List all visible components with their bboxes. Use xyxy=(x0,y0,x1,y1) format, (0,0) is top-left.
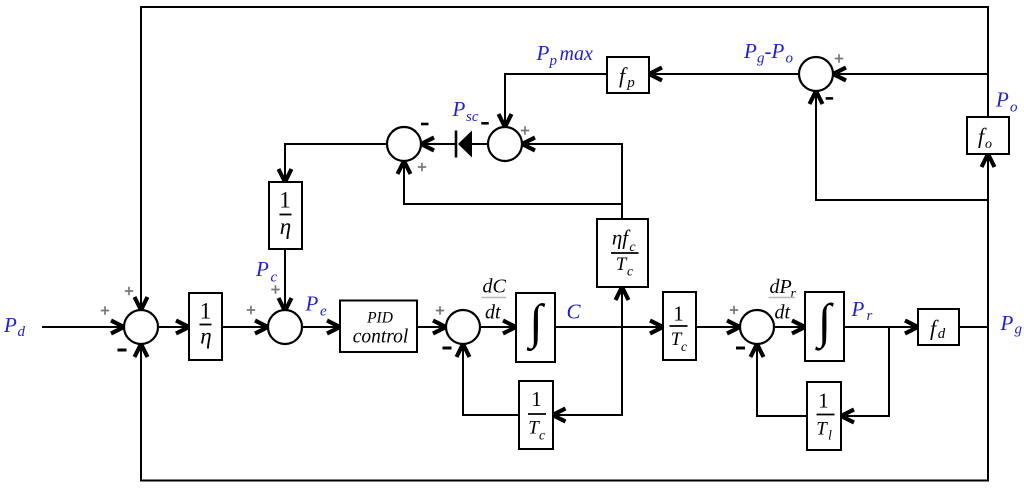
minus sign S4 right xyxy=(421,123,429,126)
label P_sc xyxy=(452,97,479,125)
wire 1/eta to S2 xyxy=(222,326,267,328)
svg-text:η: η xyxy=(280,214,291,239)
wire P_d input xyxy=(42,326,123,328)
block 1/Tc (mid) xyxy=(663,292,696,360)
svg-text:c: c xyxy=(681,339,687,354)
wire S6 minus feedback: branch at (988,200) left and up into S6 bottom xyxy=(816,92,988,200)
arrowheads (chevrons) xyxy=(111,68,995,423)
minus sign S1 bottom xyxy=(118,349,127,352)
svg-text:r: r xyxy=(867,308,873,324)
wire integrator2 to f_d with junction at x=889 xyxy=(844,326,917,328)
minus sign S7 bottom xyxy=(736,347,745,350)
summing junction S1 xyxy=(124,310,158,344)
svg-text:c: c xyxy=(271,270,278,286)
plus sign S7 left xyxy=(730,306,738,314)
svg-text:-P: -P xyxy=(765,39,785,63)
svg-text:d: d xyxy=(18,324,26,340)
label P_d xyxy=(3,313,26,340)
minus sign S5 top xyxy=(481,122,489,125)
diode P_sc (triangle + cathode bar) xyxy=(456,131,472,158)
plus sign S1 left xyxy=(101,306,109,314)
label P_p max xyxy=(536,41,593,69)
plus sign S2 left xyxy=(247,306,255,314)
label P_r xyxy=(851,297,873,324)
svg-text:control: control xyxy=(353,327,409,348)
arrow into integrator 1 xyxy=(503,321,516,334)
svg-text:T: T xyxy=(816,419,828,440)
svg-text:e: e xyxy=(320,304,327,320)
svg-text:PID: PID xyxy=(366,310,393,327)
svg-text:l: l xyxy=(828,428,832,443)
wire 1/Tc lower output left and up into S3 bottom xyxy=(463,345,519,415)
wire S6 output to f_p xyxy=(650,73,799,75)
svg-text:c: c xyxy=(539,428,545,443)
wire junction to S6 plus input xyxy=(834,73,988,75)
arrow into S7 left xyxy=(727,321,740,334)
arrow into S4 bottom xyxy=(398,161,411,174)
label dPr/dt xyxy=(769,276,797,324)
arrow into S5 top xyxy=(499,114,512,127)
svg-text:p: p xyxy=(626,75,635,91)
wire integrator1 to 1/Tc with junction at x=622 xyxy=(555,326,659,328)
block 1/Tc (lower feedback) xyxy=(519,381,553,449)
summing junction S6 xyxy=(799,57,833,91)
wire P_g up into f_o bottom xyxy=(987,156,989,327)
block f_d xyxy=(918,309,959,345)
block etafc/Tc xyxy=(597,219,648,287)
arrow into PID block xyxy=(327,321,340,334)
arrow into S2 left xyxy=(255,321,268,334)
arrow into S5 right xyxy=(522,138,535,151)
arrow into S6 bottom xyxy=(810,91,823,104)
arrow into 1/Tl right xyxy=(841,410,854,423)
svg-text:1: 1 xyxy=(818,389,829,413)
arrow into f_o bottom xyxy=(982,154,995,167)
arrow into S1 left xyxy=(111,321,124,334)
wire branch at (622,204) left and up into S4 bottom xyxy=(404,162,622,204)
plus sign S2 top xyxy=(271,285,279,293)
wire diode cathode to S4 xyxy=(422,143,455,145)
svg-text:η: η xyxy=(200,324,211,349)
arrow into 1/Tc mid xyxy=(650,321,663,334)
arrow into S1 top xyxy=(135,297,148,310)
arrow into f_d xyxy=(905,321,918,334)
summing junction S7 xyxy=(740,310,774,344)
svg-text:P: P xyxy=(3,313,17,337)
svg-text:P: P xyxy=(255,257,269,281)
arrow into integrator 2 xyxy=(792,321,805,334)
wire main line down and left into 1/Tc lower xyxy=(556,327,622,415)
svg-text:dt: dt xyxy=(485,302,501,324)
wire bottom feedback: right vertical lower, bottom line, up into S1 xyxy=(141,327,988,481)
arrow into 1/Tc lower right xyxy=(553,409,566,422)
svg-text:P: P xyxy=(452,97,466,121)
block integrator 1 xyxy=(516,293,555,362)
svg-text:C: C xyxy=(567,300,582,324)
wire vertical 1/eta block down into S2 top xyxy=(284,249,286,310)
wire 1/Tl output left and up into S7 bottom xyxy=(757,345,807,416)
block 1/eta (main chain) xyxy=(189,293,222,360)
svg-text:g: g xyxy=(1015,322,1023,338)
svg-text:P: P xyxy=(1000,311,1014,335)
wire S5 output to diode anode xyxy=(472,143,488,145)
wire S2 to PID xyxy=(302,326,339,328)
block 1/Tl (lower feedback) xyxy=(807,382,841,450)
arrow into S4 right xyxy=(421,138,434,151)
summing junction S4 xyxy=(387,127,421,161)
label P_c xyxy=(255,257,278,286)
wire f_d output to right line P_g xyxy=(959,326,988,328)
label dC/dt xyxy=(482,276,507,324)
arrow into S2 top xyxy=(279,298,292,311)
svg-text:r: r xyxy=(791,286,797,301)
svg-text:d: d xyxy=(938,326,946,342)
block 1/eta (vertical branch) xyxy=(269,182,302,249)
block integrator 2 xyxy=(805,292,844,361)
wire S3 to integrator 1 xyxy=(480,326,515,328)
svg-text:1: 1 xyxy=(531,387,542,411)
svg-text:o: o xyxy=(985,137,992,152)
svg-text:o: o xyxy=(1010,100,1018,116)
wire S1 to block 1/eta xyxy=(158,326,188,328)
plus sign S3 left xyxy=(436,306,444,314)
svg-text:o: o xyxy=(786,51,794,67)
svg-text:P: P xyxy=(743,39,757,63)
svg-text:P: P xyxy=(536,41,550,65)
svg-text:dt: dt xyxy=(775,302,791,324)
label P_g xyxy=(1000,311,1023,338)
wire f_o top up to junction y=74 xyxy=(987,74,989,117)
svg-text:1: 1 xyxy=(200,299,212,324)
wire etafc/Tc output up to S5 right input xyxy=(523,144,622,219)
arrow into block 1/eta xyxy=(176,321,189,334)
arrow into S6 right xyxy=(833,68,846,81)
wire PID to S3 xyxy=(417,326,445,328)
plus sign S5 right xyxy=(521,126,529,134)
wire top feedback: right vertical upper, top line, left line into S1 xyxy=(141,7,988,327)
minus sign S6 bottom xyxy=(826,97,834,100)
wire P_r branch down and left into 1/Tl xyxy=(842,327,889,416)
svg-text:1: 1 xyxy=(279,188,291,213)
svg-text:p: p xyxy=(549,53,558,69)
svg-text:sc: sc xyxy=(466,109,479,125)
arrow into S3 left xyxy=(433,321,446,334)
plus sign S4 bottom xyxy=(418,163,426,171)
arrow into S1 bottom xyxy=(135,344,148,357)
svg-text:P: P xyxy=(305,292,319,316)
arrow into S3 bottom xyxy=(457,344,470,357)
arrow into etafc/Tc bottom xyxy=(616,287,629,300)
block f_o xyxy=(967,117,1009,154)
wire main line up into etafc/Tc bottom xyxy=(621,288,623,327)
minus sign S3 bottom xyxy=(443,347,452,350)
arrow into S7 bottom xyxy=(751,344,764,357)
wire f_p output left and down into S5 top xyxy=(505,74,607,126)
svg-text:c: c xyxy=(627,264,633,279)
block PID control xyxy=(340,301,417,353)
wire S4 output left and down into vertical 1/eta block xyxy=(285,144,387,181)
svg-text:dP: dP xyxy=(770,276,792,298)
svg-text:max: max xyxy=(560,43,593,65)
summing junction S3 xyxy=(446,310,480,344)
label P_e xyxy=(305,292,328,320)
label P_g-P_o xyxy=(743,39,794,67)
wire S7 to integrator 2 xyxy=(774,326,804,328)
svg-text:P: P xyxy=(995,88,1009,112)
plus sign S1 top xyxy=(125,287,133,295)
svg-text:1: 1 xyxy=(673,302,684,326)
arrow into vertical 1/eta top xyxy=(279,169,292,182)
svg-text:T: T xyxy=(616,254,628,275)
plus sign S6 top xyxy=(835,54,843,62)
svg-text:P: P xyxy=(851,297,865,321)
arrow into f_p right xyxy=(649,68,662,81)
summing junction S2 xyxy=(268,310,302,344)
block f_p xyxy=(607,57,649,93)
svg-text:dC: dC xyxy=(483,276,507,298)
wire 1/Tc to S7 xyxy=(696,326,736,328)
label P_o xyxy=(995,88,1018,116)
summing junction S5 xyxy=(488,127,522,161)
